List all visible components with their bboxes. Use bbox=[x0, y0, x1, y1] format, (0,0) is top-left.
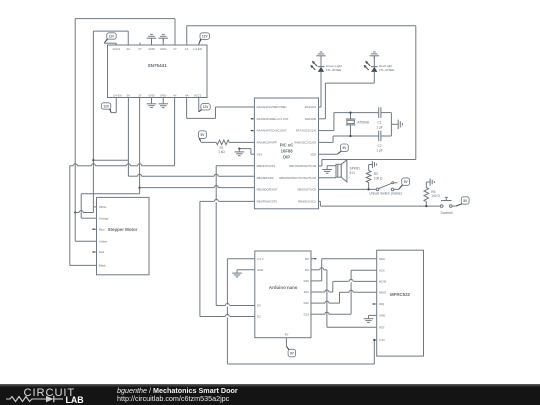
svg-text:LAB: LAB bbox=[66, 395, 84, 405]
svg-text:http://circuitlab.com/c6tzm535: http://circuitlab.com/c6tzm535a2jpc bbox=[117, 394, 230, 403]
svg-text:D8: D8 bbox=[305, 257, 309, 261]
wire crystal right rail bbox=[390, 113, 392, 136]
svg-text:Orange: Orange bbox=[99, 216, 109, 220]
junction 2A riser / 3A branch bbox=[92, 159, 94, 161]
wire 4Y-Black bus bbox=[70, 164, 175, 166]
wire D12 to MISO bbox=[311, 290, 377, 303]
Arduino D8 no-connect stub bbox=[311, 258, 316, 260]
5V rail mini-ground at R6 top bbox=[426, 178, 434, 187]
svg-text:GND: GND bbox=[148, 93, 154, 97]
svg-text:RST: RST bbox=[379, 325, 385, 329]
ground below driver GND pin d bbox=[158, 98, 168, 108]
pin 2Y stub (pin 1 tick) bbox=[139, 43, 141, 45]
svg-text:IRQ: IRQ bbox=[379, 302, 385, 306]
ground above driver GND pin a bbox=[147, 34, 157, 45]
svg-text:1,2 EN: 1,2 EN bbox=[193, 47, 202, 51]
svg-text:3,4 EN: 3,4 EN bbox=[113, 93, 122, 97]
svg-text:16F88: 16F88 bbox=[281, 148, 294, 153]
svg-text:VSS: VSS bbox=[257, 152, 263, 156]
svg-text:RB3/PGM/CCP1: RB3/PGM/CCP1 bbox=[257, 200, 278, 204]
svg-text:RA6/OSC2/CLKO: RA6/OSC2/CLKO bbox=[294, 141, 316, 145]
svg-text:3Y: 3Y bbox=[138, 93, 142, 97]
svg-text:VCC2: VCC2 bbox=[112, 47, 120, 51]
wire RA7 to top rail bbox=[319, 113, 379, 131]
stepper Blue no-connect stub bbox=[92, 228, 96, 230]
ground at Arduino GND bbox=[232, 270, 255, 277]
junction R6 bottom bbox=[425, 205, 427, 207]
PIC right pin labels bbox=[279, 105, 316, 203]
svg-text:4A: 4A bbox=[185, 93, 189, 97]
wire branch to 3A bbox=[93, 159, 128, 161]
resistor R6 100ohm bbox=[424, 188, 441, 207]
svg-text:100 Ω: 100 Ω bbox=[431, 194, 440, 198]
capacitor C2 1uF bbox=[376, 131, 391, 153]
wire to stepper White pin bbox=[93, 206, 96, 208]
svg-text:3A: 3A bbox=[127, 93, 131, 97]
svg-text:RB7/AN6/PGD/T1OSI: RB7/AN6/PGD/T1OSI bbox=[289, 164, 316, 168]
wire RB5 to unlock switch bbox=[319, 188, 377, 190]
svg-text:Blue: Blue bbox=[99, 227, 105, 231]
5V tag at unlock switch bbox=[394, 178, 410, 190]
svg-text:3.3 V: 3.3 V bbox=[257, 257, 264, 261]
IC U2 SN754410 motor driver box bbox=[108, 45, 208, 98]
ground at MFRC522 GND bbox=[364, 315, 377, 322]
svg-text:2A: 2A bbox=[127, 47, 131, 51]
svg-text:12V: 12V bbox=[103, 104, 110, 108]
IC U3 Arduino nano box bbox=[255, 251, 311, 338]
wire 1A to PIC RB7 loop bbox=[187, 26, 416, 166]
svg-text:RB2/SDO/RX/DT: RB2/SDO/RX/DT bbox=[257, 188, 278, 192]
svg-text:RA0/AN0: RA0/AN0 bbox=[305, 117, 317, 121]
wire D11 to MOSI bbox=[311, 281, 377, 292]
svg-text:1Y: 1Y bbox=[173, 47, 177, 51]
svg-text:RA3/AN3/VREF+/C1 OUT: RA3/AN3/VREF+/C1 OUT bbox=[257, 117, 289, 121]
svg-text:D10: D10 bbox=[304, 279, 310, 283]
svg-text:1 μF: 1 μF bbox=[376, 125, 382, 129]
hop on RB3 wire bbox=[214, 199, 219, 202]
footer text bbox=[117, 386, 238, 403]
stepper pin label Blue bbox=[99, 227, 105, 231]
LED D1 Green Light bbox=[310, 52, 342, 72]
SN754410 bottom pin labels bbox=[113, 93, 202, 97]
Arduino right pin labels bbox=[304, 257, 310, 317]
wire RB3 to Arduino D2 bbox=[200, 201, 255, 316]
svg-text:Doorbell: Doorbell bbox=[441, 211, 453, 215]
svg-text:3.3V: 3.3V bbox=[379, 338, 385, 342]
12V supply tag 3,4EN bbox=[101, 98, 116, 113]
speaker SPKR1 8ohm bbox=[336, 160, 360, 182]
LED D2 Red Light bbox=[364, 52, 395, 72]
svg-text:RA1/AN1: RA1/AN1 bbox=[305, 105, 317, 109]
svg-text:VDD: VDD bbox=[310, 152, 316, 156]
wire Arduino 3.3V loop to MFRC 3.3V bbox=[227, 259, 376, 364]
stepper motor box bbox=[97, 197, 150, 274]
hop on D2 wire bbox=[225, 304, 230, 318]
PIC RA3 no-connect stub bbox=[251, 118, 255, 120]
svg-text:D11: D11 bbox=[304, 290, 309, 294]
wire 3A to RB1 bbox=[128, 174, 254, 176]
5V rail mini-ground at R2 top bbox=[369, 161, 377, 171]
svg-text:12V: 12V bbox=[109, 34, 116, 38]
5V tag for R1 bbox=[198, 131, 206, 142]
crystal X1 AT50HD bbox=[346, 111, 370, 137]
svg-text:C2: C2 bbox=[378, 144, 382, 148]
svg-text:RA5/MCLR/VPP: RA5/MCLR/VPP bbox=[257, 141, 277, 145]
PIC left pin labels bbox=[257, 105, 289, 203]
hop on MOSI wire bbox=[349, 279, 354, 282]
IC U1 PIC 16F88 box bbox=[254, 98, 318, 209]
footer bar bbox=[0, 384, 540, 405]
Arduino left pin labels bbox=[257, 257, 264, 319]
svg-text:RA2/AN2/CVREF/VREF-: RA2/AN2/CVREF/VREF- bbox=[257, 105, 288, 109]
junction R2 bottom bbox=[367, 188, 369, 190]
wire RB0 to Arduino D3 bbox=[216, 166, 255, 306]
MFRC522 left pin labels bbox=[379, 257, 387, 342]
CircuitLab logo bbox=[6, 387, 84, 405]
svg-text:D9: D9 bbox=[305, 268, 309, 272]
svg-text:D12: D12 bbox=[304, 301, 310, 305]
svg-text:12V: 12V bbox=[203, 105, 210, 109]
svg-text:Unlock Switch (Inside): Unlock Switch (Inside) bbox=[369, 192, 402, 196]
ground right of crystal bbox=[391, 120, 402, 129]
wire RB6 to speaker bbox=[319, 177, 337, 179]
stepper pin label White bbox=[99, 205, 107, 209]
svg-text:RB1/SDI/SDA: RB1/SDI/SDA bbox=[257, 176, 274, 180]
svg-text:VCC1: VCC1 bbox=[194, 93, 202, 97]
wire RB4 to doorbell row bbox=[319, 201, 441, 206]
svg-text:RB6/AN5/PGC/T1OSO/T1CKI: RB6/AN5/PGC/T1OSO/T1CKI bbox=[279, 176, 316, 180]
svg-text:D13: D13 bbox=[304, 312, 310, 316]
svg-text:100 Ω: 100 Ω bbox=[374, 177, 383, 181]
wire Yellow feed bbox=[75, 213, 96, 242]
12V supply tag VCC1 bbox=[199, 98, 211, 113]
svg-text:SCK: SCK bbox=[379, 268, 385, 272]
svg-text:GND: GND bbox=[160, 47, 166, 51]
svg-text:RB0/INT/CCP1: RB0/INT/CCP1 bbox=[257, 164, 276, 168]
wire 4A to RA2 bbox=[187, 98, 255, 119]
ground at speaker top terminal bbox=[322, 166, 336, 174]
MFRC522 IRQ no-connect stub bbox=[373, 303, 377, 305]
svg-text:RB4/SCK/SCL: RB4/SCK/SCL bbox=[298, 200, 316, 204]
svg-text:2Y: 2Y bbox=[138, 47, 142, 51]
svg-text:1 μF: 1 μF bbox=[376, 149, 382, 153]
svg-text:GND: GND bbox=[148, 47, 154, 51]
svg-text:LTL-307EE: LTL-307EE bbox=[326, 68, 341, 72]
svg-text:GND: GND bbox=[160, 93, 166, 97]
svg-text:MISO: MISO bbox=[379, 290, 387, 294]
svg-text:MFRC522: MFRC522 bbox=[390, 292, 411, 297]
svg-text:1A: 1A bbox=[185, 47, 189, 51]
svg-text:DIP: DIP bbox=[283, 155, 290, 160]
svg-text:8 Ω: 8 Ω bbox=[350, 171, 356, 175]
pushbutton SW2 Doorbell bbox=[440, 197, 452, 215]
SN754410 top pin labels bbox=[112, 47, 201, 51]
wire 4Y joins bus bbox=[174, 98, 176, 166]
wire 1Y to stepper center taps bbox=[75, 19, 175, 213]
svg-text:RA7/OSC1/CLKI: RA7/OSC1/CLKI bbox=[296, 129, 317, 133]
switch SW1 Unlock Switch bbox=[369, 182, 402, 196]
svg-text:GND: GND bbox=[379, 314, 385, 318]
svg-text:Yellow: Yellow bbox=[99, 240, 108, 244]
12V supply tag 1,2EN bbox=[199, 33, 210, 45]
ground above driver GND pin b bbox=[158, 34, 168, 45]
5V tag at doorbell bbox=[452, 197, 469, 206]
wire 3Y to RB2 bbox=[140, 186, 255, 188]
svg-text:SPKR1: SPKR1 bbox=[350, 167, 361, 171]
wire RA6 to bottom rail bbox=[319, 136, 379, 142]
stepper pin label Red bbox=[99, 250, 105, 254]
wire 3Y down bbox=[139, 98, 141, 188]
svg-text:D2: D2 bbox=[257, 315, 261, 319]
12V supply tag VCC2 bbox=[104, 33, 116, 45]
stepper pin label Orange bbox=[99, 216, 109, 220]
wire D9 to RST bbox=[311, 268, 377, 328]
wire 2A up-left-down to White bbox=[93, 31, 128, 207]
svg-text:Arduino nano: Arduino nano bbox=[269, 285, 298, 290]
wire green LED to RA1 bbox=[319, 72, 322, 107]
stepper Red no-connect stub bbox=[92, 251, 96, 253]
junction White/Yellow taps bbox=[74, 211, 76, 213]
capacitor C1 1uF bbox=[376, 107, 391, 129]
wire 3A down bbox=[127, 98, 129, 177]
svg-text:4Y: 4Y bbox=[173, 93, 177, 97]
junction 3Y/Orange bbox=[138, 186, 140, 188]
stepper pin label Black bbox=[99, 264, 107, 268]
IC U4 MFRC522 box bbox=[377, 250, 424, 356]
ground at VSS bbox=[235, 147, 255, 155]
svg-text:12V: 12V bbox=[202, 34, 209, 38]
svg-text:LTL-307EE: LTL-307EE bbox=[379, 68, 394, 72]
hop on D3 wire bbox=[225, 305, 230, 307]
wire Black to bus bbox=[70, 166, 97, 266]
PIC RA4 no-connect stub bbox=[251, 130, 255, 132]
wire red LED to RA0 bbox=[319, 72, 375, 119]
resistor R2 100ohm bbox=[366, 171, 383, 190]
svg-text:AT50HD: AT50HD bbox=[357, 120, 370, 124]
ground below driver GND pin c bbox=[147, 98, 157, 108]
svg-text:SN75441: SN75441 bbox=[148, 63, 168, 68]
svg-text:1 kΩ: 1 kΩ bbox=[218, 150, 225, 154]
wire Orange to 3Y riser bbox=[81, 188, 139, 219]
ground above green LED bbox=[0, 0, 1, 1]
stepper pin label Yellow bbox=[99, 240, 108, 244]
wire D10 to SDA bbox=[311, 259, 377, 281]
wire tap junction to White riser bbox=[75, 207, 93, 213]
5V tag at VDD bbox=[319, 144, 349, 154]
svg-text:R2: R2 bbox=[374, 172, 378, 176]
9V tag below Arduino bbox=[286, 338, 295, 357]
wire D13 to SCK bbox=[311, 270, 377, 314]
svg-text:Stepper Motor: Stepper Motor bbox=[108, 227, 138, 232]
resistor R1 1k bbox=[201, 140, 255, 154]
svg-text:PIC uC: PIC uC bbox=[280, 142, 294, 147]
svg-text:C1: C1 bbox=[378, 121, 382, 125]
svg-text:D3: D3 bbox=[257, 304, 261, 308]
svg-text:MOSI: MOSI bbox=[379, 280, 386, 284]
svg-text:SDA: SDA bbox=[379, 257, 385, 261]
svg-text:RA4/AN4/T0CKI/C2OUT: RA4/AN4/T0CKI/C2OUT bbox=[257, 129, 287, 133]
svg-text:Red: Red bbox=[99, 250, 105, 254]
svg-text:GND: GND bbox=[257, 268, 263, 272]
svg-text:RB5/SS/TX/CK: RB5/SS/TX/CK bbox=[298, 188, 317, 192]
svg-text:White: White bbox=[99, 205, 107, 209]
svg-text:Black: Black bbox=[99, 264, 107, 268]
ground above red LED bbox=[0, 0, 1, 1]
svg-text:9V: 9V bbox=[285, 333, 289, 337]
